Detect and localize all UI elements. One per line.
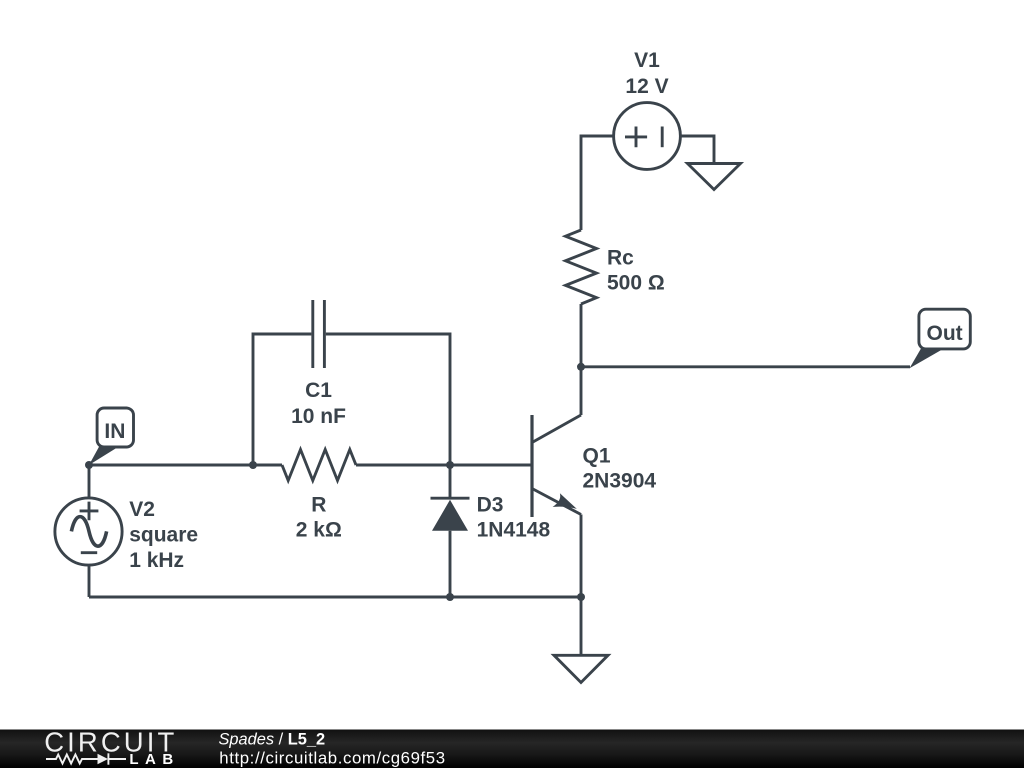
node at IN junction — [85, 461, 93, 469]
CircuitLab logo resistor-diode symbol — [46, 753, 126, 764]
node at D3 bottom junction — [446, 593, 454, 601]
node at collector/Out junction — [577, 363, 585, 371]
svg-text:Out: Out — [927, 322, 963, 345]
capacitor C1 with loop wires — [253, 300, 450, 465]
svg-text:V1: V1 — [634, 49, 660, 72]
svg-text:10 nF: 10 nF — [291, 405, 346, 428]
ground at bottom — [554, 655, 608, 682]
transistor Q1 — [532, 415, 656, 517]
svg-text:1 kHz: 1 kHz — [129, 549, 184, 572]
resistor R — [282, 450, 356, 542]
svg-text:square: square — [129, 523, 198, 546]
diode D3 — [431, 465, 551, 597]
svg-text:LAB: LAB — [129, 751, 179, 768]
wire V1 right terminal to ground — [680, 136, 714, 164]
svg-text:Spades / L5_2: Spades / L5_2 — [219, 730, 326, 748]
svg-text:D3: D3 — [477, 494, 504, 517]
svg-text:IN: IN — [104, 420, 125, 443]
wire Rc bottom to collector node — [580, 304, 583, 367]
svg-text:500 Ω: 500 Ω — [607, 272, 665, 295]
svg-text:Q1: Q1 — [583, 444, 611, 467]
wire Q1 emitter down to bottom rail — [580, 515, 583, 598]
ground at V1 — [688, 164, 741, 190]
svg-text:Rc: Rc — [607, 247, 634, 270]
resistor Rc — [566, 230, 665, 304]
svg-text:http://circuitlab.com/cg69f53: http://circuitlab.com/cg69f53 — [219, 749, 445, 768]
wire collector node to Out flag — [581, 365, 910, 368]
flag Out — [910, 309, 971, 368]
voltage source V2 — [55, 465, 198, 597]
bottom banner background — [0, 730, 1024, 769]
wire from V1 left terminal down to Rc — [581, 136, 614, 230]
wire resistor R to Q1 base — [356, 464, 532, 467]
flag IN — [89, 408, 134, 465]
svg-text:2 kΩ: 2 kΩ — [296, 518, 342, 541]
svg-text:12 V: 12 V — [625, 75, 668, 98]
voltage source V1 — [614, 49, 681, 169]
svg-text:V2: V2 — [129, 498, 155, 521]
svg-text:C1: C1 — [305, 379, 332, 402]
node at C1 left junction — [249, 461, 257, 469]
node at emitter/ground junction — [577, 593, 585, 601]
bottom rail wire — [89, 596, 581, 599]
svg-text:2N3904: 2N3904 — [583, 470, 657, 493]
wire bottom node to ground — [580, 597, 583, 655]
node at D3 top junction — [446, 461, 454, 469]
wire collector node down to Q1 collector — [580, 367, 583, 415]
svg-text:R: R — [311, 493, 326, 516]
svg-text:1N4148: 1N4148 — [477, 519, 551, 542]
wire base row: node IN to resistor R — [89, 464, 282, 467]
